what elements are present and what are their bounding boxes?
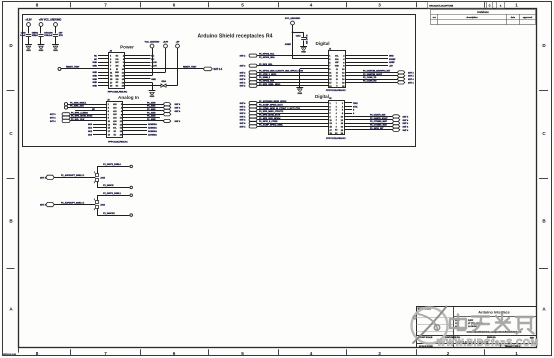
svg-text:2: 2 xyxy=(336,120,337,122)
svg-text:P1_AIN2: P1_AIN2 xyxy=(147,108,156,111)
svg-text:5: 5 xyxy=(241,3,244,8)
svg-text:FPPC1X2LFBN-RC: FPPC1X2LFBN-RC xyxy=(326,90,346,92)
svg-text:1: 1 xyxy=(515,3,518,8)
svg-text:GND: GND xyxy=(93,62,98,64)
svg-text:SHT 4: SHT 4 xyxy=(240,102,247,105)
svg-text:Arduino Interface: Arduino Interface xyxy=(478,310,509,314)
svg-text:6/TX: 6/TX xyxy=(353,106,358,108)
svg-text:VCC_ARDUINO: VCC_ARDUINO xyxy=(145,41,160,44)
svg-text:AD2: AD2 xyxy=(113,110,116,113)
svg-text:ORCAD/17.1/CAPTURE: ORCAD/17.1/CAPTURE xyxy=(429,4,454,7)
svg-text:AREF: AREF xyxy=(389,61,395,64)
svg-text:P1_24SCK2: P1_24SCK2 xyxy=(103,212,115,215)
svg-text:P1_SPI0_MISO_CTOUT2: P1_SPI0_MISO_CTOUT2 xyxy=(259,111,284,113)
svg-text:SHT 4: SHT 4 xyxy=(403,115,410,118)
svg-text:P1_UART0_SOUT: P1_UART0_SOUT xyxy=(370,117,388,120)
svg-text:6: 6 xyxy=(336,106,337,108)
svg-text:1: 1 xyxy=(336,123,337,125)
svg-text:10: 10 xyxy=(336,79,338,81)
svg-text:SHT 4: SHT 4 xyxy=(240,112,247,115)
svg-text:FPPC10SLFBN-RC: FPPC10SLFBN-RC xyxy=(108,91,128,93)
svg-text:GND: GND xyxy=(151,79,156,81)
svg-text:GND: GND xyxy=(389,56,394,58)
svg-text:3: 3 xyxy=(336,116,337,118)
svg-text:P1_ASPI1UPT_SSEL1 1: P1_ASPI1UPT_SSEL1 1 xyxy=(61,174,85,177)
svg-text:0.1uF 16V: 0.1uF 16V xyxy=(305,35,307,45)
svg-text:7/RX: 7/RX xyxy=(353,103,358,105)
svg-text:3: 3 xyxy=(378,351,381,356)
svg-text:+5.0V: +5.0V xyxy=(163,42,169,44)
svg-text:5: 5 xyxy=(336,110,337,112)
svg-text:AD3: AD3 xyxy=(113,113,116,116)
svg-text:4: 4 xyxy=(310,3,313,8)
svg-text:0.1uF: 0.1uF xyxy=(47,35,53,37)
svg-text:AD1: AD1 xyxy=(113,106,116,109)
svg-text:P1_CAN0_TD: P1_CAN0_TD xyxy=(363,76,377,79)
svg-text:VCC_ARDUINO: VCC_ARDUINO xyxy=(44,19,62,22)
svg-text:P1_24PP1_SSEL0: P1_24PP1_SSEL0 xyxy=(103,163,122,166)
svg-text:GND: GND xyxy=(93,79,98,81)
svg-text:AD5/SDA: AD5/SDA xyxy=(148,127,157,130)
svg-text:GND: GND xyxy=(53,50,58,52)
svg-text:GND: GND xyxy=(297,93,302,95)
svg-text:approved: approved xyxy=(523,16,533,19)
svg-text:VCC_ARDUINO: VCC_ARDUINO xyxy=(285,17,301,20)
svg-text:SHT 4: SHT 4 xyxy=(403,122,410,125)
svg-text:SCL: SCL xyxy=(335,56,338,58)
svg-text:1: 1 xyxy=(94,199,95,201)
svg-text:6: 6 xyxy=(173,3,176,8)
svg-text:P1_I2C0_SDL: P1_I2C0_SDL xyxy=(259,64,273,66)
svg-text:P1_AIN4: P1_AIN4 xyxy=(147,115,156,118)
svg-text:FPPC1X2LFBN-RC: FPPC1X2LFBN-RC xyxy=(326,138,346,140)
svg-text:P1_SWM_2: P1_SWM_2 xyxy=(259,77,271,79)
svg-text:GND: GND xyxy=(93,76,98,78)
svg-text:SHT 4: SHT 4 xyxy=(240,105,247,108)
svg-text:AD6/SDA: AD6/SDA xyxy=(148,130,157,133)
svg-text:5: 5 xyxy=(241,351,244,356)
svg-text:P1_GPIO_INT: P1_GPIO_INT xyxy=(370,128,384,130)
svg-text:P1_SPI0_SCK_GPIO4: P1_SPI0_SCK_GPIO4 xyxy=(259,117,281,120)
svg-text:P1_UART2B_SIN/GPIO_INT: P1_UART2B_SIN/GPIO_INT xyxy=(363,69,391,72)
svg-text:P1_SPI0_MOSI_SCT0: P1_SPI0_MOSI_SCT0 xyxy=(259,115,281,117)
svg-text:RESET_TEST: RESET_TEST xyxy=(66,67,80,69)
svg-text:P1_AIN0_SSEL1: P1_AIN0_SSEL1 xyxy=(70,101,87,104)
svg-text:0: 0 xyxy=(336,126,337,128)
svg-text:0.1uF: 0.1uF xyxy=(20,35,26,37)
svg-text:Digital: Digital xyxy=(315,41,329,46)
svg-text:IOREF: IOREF xyxy=(285,44,292,46)
svg-text:P1_GPIO3_SDA: P1_GPIO3_SDA xyxy=(259,56,275,59)
svg-text:1: 1 xyxy=(94,172,95,174)
svg-text:7: 7 xyxy=(104,351,107,356)
svg-text:7: 7 xyxy=(104,3,107,8)
svg-text:NC: NC xyxy=(151,55,155,57)
svg-text:P1_AIN3: P1_AIN3 xyxy=(147,111,156,114)
svg-text:GND: GND xyxy=(93,86,98,88)
svg-text:SHT 4: SHT 4 xyxy=(240,78,247,81)
svg-text:8: 8 xyxy=(36,351,39,356)
svg-text:P1_CTIN1_GPIO_M_CTOUT_1_SCT 2: P1_CTIN1_GPIO_M_CTOUT_1_SCT 2 TX1 xyxy=(259,108,301,110)
svg-text:SHT 4: SHT 4 xyxy=(240,122,247,125)
svg-text:GND: GND xyxy=(26,50,31,52)
svg-text:6: 6 xyxy=(173,351,176,356)
svg-text:SHT 4: SHT 4 xyxy=(403,119,410,122)
svg-text:P1_SPI0_SSEL_MISO: P1_SPI0_SSEL_MISO xyxy=(259,84,281,86)
svg-text:12: 12 xyxy=(336,72,338,74)
svg-text:GND: GND xyxy=(150,96,155,98)
svg-text:Arduino Shield receptacles R4: Arduino Shield receptacles R4 xyxy=(198,34,273,40)
svg-text:P1_ASPI2UPT_SSEL1 1: P1_ASPI2UPT_SSEL1 1 xyxy=(61,201,85,204)
svg-text:7: 7 xyxy=(336,103,337,105)
svg-text:DJFF: DJFF xyxy=(468,320,474,322)
svg-text:ARF: ARF xyxy=(335,61,338,64)
svg-text:AD4: AD4 xyxy=(113,117,116,120)
svg-text:SHT 4: SHT 4 xyxy=(240,55,247,58)
svg-text:AD4/SDA: AD4/SDA xyxy=(148,123,157,126)
svg-text:P1_AIN5: P1_AIN5 xyxy=(147,118,156,121)
svg-text:SHT 4: SHT 4 xyxy=(408,75,415,78)
svg-text:P1_SPI1_MOSI_SCK1: P1_SPI1_MOSI_SCK1 xyxy=(71,116,93,118)
svg-text:1: 1 xyxy=(515,351,518,356)
svg-text:P1_SPI1_4_MISO: P1_SPI1_4_MISO xyxy=(71,111,88,114)
svg-text:SHT 4: SHT 4 xyxy=(240,119,247,122)
svg-text:revisions: revisions xyxy=(477,10,489,14)
svg-text:SHT 4: SHT 4 xyxy=(408,81,415,84)
svg-text:SHT 4: SHT 4 xyxy=(240,125,247,128)
svg-text:SHT 4: SHT 4 xyxy=(175,103,182,106)
svg-text:AD5: AD5 xyxy=(113,120,116,123)
svg-text:P1_CT32B1_MAT: P1_CT32B1_MAT xyxy=(370,124,388,127)
svg-text:SHT 4: SHT 4 xyxy=(240,71,247,74)
svg-text:P1_GPIO_5_CTIN2: P1_GPIO_5_CTIN2 xyxy=(259,121,278,123)
svg-text:2: 2 xyxy=(94,182,95,184)
svg-text:SHT 4: SHT 4 xyxy=(50,120,57,123)
svg-text:P1_UART2B_SOUT: P1_UART2B_SOUT xyxy=(363,73,383,76)
svg-text:2: 2 xyxy=(94,209,95,211)
svg-text:16V: 16V xyxy=(59,32,63,34)
svg-text:SHT 4: SHT 4 xyxy=(175,120,182,123)
svg-text:4: 4 xyxy=(336,112,337,115)
svg-text:Digital: Digital xyxy=(315,94,329,99)
svg-text:NC: NC xyxy=(151,59,155,61)
svg-text:P1_ACMP_GPIO2_SCT1: P1_ACMP_GPIO2_SCT1 xyxy=(259,103,284,106)
svg-text:SHT 4: SHT 4 xyxy=(408,71,415,74)
svg-text:P1_24PP1_SSEL1: P1_24PP1_SSEL1 xyxy=(103,192,122,195)
svg-text:8: 8 xyxy=(336,86,337,88)
svg-text:GND: GND xyxy=(39,50,44,52)
svg-text:SHT 3: SHT 3 xyxy=(50,114,57,116)
svg-text:4: 4 xyxy=(310,351,313,356)
svg-text:P1_ACMP_GPIO3_SSEL: P1_ACMP_GPIO3_SSEL xyxy=(259,124,284,127)
svg-text:P1_GPIO1_SD0_CLKOUT_SD1_GPIO1: P1_GPIO1_SD0_CLKOUT_SD1_GPIO1 2 TX0 xyxy=(259,70,304,72)
svg-text:+3.3V: +3.3V xyxy=(25,19,32,22)
svg-text:AD0: AD0 xyxy=(113,103,116,106)
svg-text:P1_SCL_CLK: P1_SCL_CLK xyxy=(71,119,85,121)
svg-text:8/5/2014 9:04: 8/5/2014 9:04 xyxy=(3,353,17,356)
svg-text:P1_CT32B0_MAT: P1_CT32B0_MAT xyxy=(370,120,388,123)
svg-text:SHT 1-4: SHT 1-4 xyxy=(214,68,223,71)
svg-text:3V3: 3V3 xyxy=(115,65,118,67)
svg-text:WWW.BlBCfanS.COM: WWW.BlBCfanS.COM xyxy=(437,337,539,347)
svg-text:P1_CAN0_RD: P1_CAN0_RD xyxy=(363,80,377,83)
svg-text:SHT 4: SHT 4 xyxy=(403,129,410,132)
svg-text:SHT 4: SHT 4 xyxy=(240,109,247,112)
svg-text:SHT 4: SHT 4 xyxy=(50,117,57,120)
svg-text:P1_AUTOSS0_MOSI_GPIO1: P1_AUTOSS0_MOSI_GPIO1 xyxy=(259,100,287,103)
svg-text:P1_UART0_SIN: P1_UART0_SIN xyxy=(370,114,386,117)
svg-text:+5V: +5V xyxy=(389,66,393,68)
svg-text:P1_AIN0: P1_AIN0 xyxy=(147,101,156,104)
svg-text:SHT 4: SHT 4 xyxy=(240,115,247,118)
svg-text:P1_AIN1: P1_AIN1 xyxy=(147,105,156,108)
svg-text:2: 2 xyxy=(447,351,450,356)
svg-text:AD7/SDA: AD7/SDA xyxy=(148,133,157,136)
svg-text:11: 11 xyxy=(336,76,338,78)
svg-text:X7R: X7R xyxy=(59,35,64,37)
svg-text:GND: GND xyxy=(301,52,306,54)
svg-text:Power: Power xyxy=(120,45,134,50)
svg-text:P1_GPIO3_SCL: P1_GPIO3_SCL xyxy=(259,54,275,56)
svg-text:3: 3 xyxy=(378,3,381,8)
svg-text:SHT 4: SHT 4 xyxy=(403,125,410,128)
svg-text:IOREF: IOREF xyxy=(389,59,396,61)
svg-text:10uF: 10uF xyxy=(33,35,38,37)
svg-text:RESET_TEST: RESET_TEST xyxy=(183,67,197,69)
svg-text:P1_AIN1_AD1: P1_AIN1_AD1 xyxy=(70,105,85,108)
svg-text:P1_24SCK: P1_24SCK xyxy=(103,184,114,187)
svg-text:SHT 4: SHT 4 xyxy=(408,78,415,81)
svg-text:C: C xyxy=(489,4,491,7)
svg-text:FPPC1X2LFBN-RC: FPPC1X2LFBN-RC xyxy=(108,142,128,144)
svg-text:P1_GPIO2_SD1: P1_GPIO2_SD1 xyxy=(259,81,275,83)
svg-text:SHT 4: SHT 4 xyxy=(240,75,247,78)
svg-text:9: 9 xyxy=(336,82,337,84)
svg-text:GND: GND xyxy=(93,65,98,67)
svg-text:description: description xyxy=(466,16,478,19)
svg-text:SHT 4: SHT 4 xyxy=(240,81,247,84)
svg-text:SHT 4: SHT 4 xyxy=(240,65,247,68)
svg-text:13: 13 xyxy=(336,69,338,71)
svg-text:SHT 4: SHT 4 xyxy=(175,107,182,110)
svg-text:GND: GND xyxy=(93,82,98,84)
svg-text:SHT 4: SHT 4 xyxy=(240,85,247,88)
svg-text:SCL: SCL xyxy=(113,128,116,130)
svg-text:SHT 4: SHT 4 xyxy=(175,110,182,113)
svg-text:8: 8 xyxy=(36,3,39,8)
svg-text:Analog In: Analog In xyxy=(118,95,139,100)
svg-text:SCALE NONE: SCALE NONE xyxy=(419,345,433,348)
svg-text:P1_CTIN_1_GPIO: P1_CTIN_1_GPIO xyxy=(259,74,277,76)
svg-text:GND: GND xyxy=(93,72,98,74)
